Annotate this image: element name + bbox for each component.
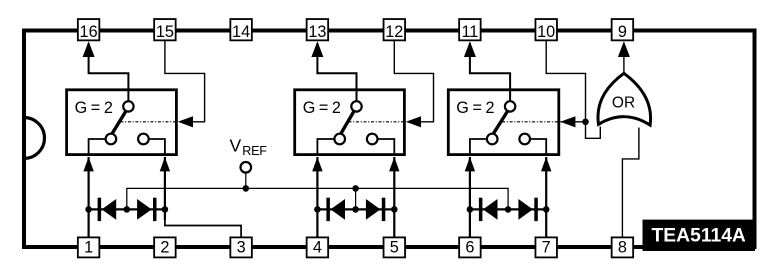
svg-text:G = 2: G = 2 [75, 99, 113, 117]
clamp diode D4 (cathode right) [356, 198, 395, 221]
wire: right contact stub [149, 139, 165, 155]
switch S2 common terminal circle [351, 101, 361, 111]
svg-text:15: 15 [156, 23, 174, 41]
svg-text:3: 3 [237, 239, 246, 257]
junction node left [85, 206, 92, 213]
pin 7 [535, 237, 557, 257]
switch block S2 box (G = 2) [295, 90, 405, 155]
wire: common output to pin 10 [464, 41, 510, 101]
wire: left input from pin 4 [312, 157, 322, 237]
switch S1 dash-dot control line [120, 121, 176, 123]
junction node right [162, 206, 169, 213]
wire: control pin 12 jog into block [394, 41, 433, 128]
switch S3 left contact circle [487, 134, 498, 145]
svg-text:6: 6 [465, 239, 474, 257]
svg-text:13: 13 [308, 23, 326, 41]
OR gate U1 [598, 73, 651, 125]
svg-text:OR: OR [612, 94, 635, 111]
pin 4 [307, 237, 329, 257]
switch block S3 box (G = 2) [448, 90, 559, 155]
switch S2 dash-dot control line [349, 121, 405, 123]
svg-text:TEA5114A: TEA5114A [652, 226, 746, 247]
junction node left [314, 206, 321, 213]
switch S1 left contact circle [106, 134, 117, 145]
clamp diode D3 (cathode left) [317, 198, 355, 221]
svg-text:G = 2: G = 2 [303, 99, 341, 117]
pin 3 [230, 237, 252, 257]
pin 2 [154, 237, 176, 257]
switch S3 dash-dot control line [502, 121, 559, 123]
wire: common output to pin 13 [311, 41, 356, 101]
wire: right input from pin 7 [541, 157, 551, 237]
wire: control pin 15 jog into block [165, 41, 205, 128]
wire: right input from pin 5 [389, 157, 399, 237]
switch S2 left contact circle [334, 134, 345, 145]
svg-text:16: 16 [80, 23, 98, 41]
junction node diode midpoint [505, 206, 512, 213]
junction node left [467, 206, 474, 213]
junction node right [543, 206, 550, 213]
junction node diode midpoint [124, 206, 131, 213]
svg-text:11: 11 [461, 23, 478, 41]
wire: left contact stub [89, 139, 106, 155]
pin 15 [154, 19, 176, 41]
pin 8 [612, 237, 634, 257]
junction node diode midpoint [352, 206, 359, 213]
pin 16 [78, 19, 100, 41]
part number label TEA5114A [643, 220, 756, 251]
VREF rail wire [127, 188, 508, 209]
wire: right contact stub [378, 139, 395, 155]
junction node right [391, 206, 398, 213]
pin 14 [230, 19, 252, 41]
pin 9 [612, 19, 634, 41]
wire: block S2 midpoint to rail [352, 185, 359, 209]
pin 12 [384, 19, 406, 41]
svg-text:REF: REF [242, 144, 267, 158]
wire: left input from pin 1 [83, 157, 93, 237]
switch S3 right contact circle [519, 134, 530, 145]
svg-text:10: 10 [537, 23, 555, 41]
wire: pin 10 control line with junction to OR input [546, 41, 600, 139]
clamp diode D5 (cathode left) [470, 198, 508, 221]
wire: pin 8 to OR right input [622, 128, 639, 238]
pin 10 [535, 19, 557, 41]
svg-text:9: 9 [618, 23, 627, 41]
switch S3 wiper arm [493, 111, 508, 135]
wire: pin 3 jog to right input [160, 157, 241, 237]
switch S1 right contact circle [138, 134, 149, 145]
switch S2 right contact circle [367, 134, 378, 145]
switch S1 wiper arm [112, 111, 127, 135]
svg-text:G = 2: G = 2 [456, 99, 494, 117]
clamp diode D6 (cathode right) [508, 198, 546, 221]
svg-text:V: V [230, 136, 242, 156]
svg-text:1: 1 [84, 239, 93, 257]
wire: right contact stub [530, 139, 546, 155]
clamp diode D1 (cathode left) [89, 198, 127, 221]
switch S3 common terminal circle [505, 101, 515, 111]
svg-text:14: 14 [232, 23, 250, 41]
package pin-1 notch [24, 118, 44, 159]
svg-text:8: 8 [618, 239, 627, 257]
svg-text:7: 7 [542, 239, 551, 257]
wire: left contact stub [470, 139, 487, 155]
svg-text:12: 12 [385, 23, 403, 41]
switch S2 wiper arm [341, 111, 355, 135]
IC package outline [24, 31, 755, 248]
pin 13 [307, 19, 329, 41]
pin 6 [459, 237, 481, 257]
label VREF [230, 136, 268, 158]
switch S1 common terminal circle [123, 101, 133, 111]
wire: common output to pin 16 [83, 41, 129, 101]
wire: left input from pin 6 [465, 157, 475, 237]
pin 5 [384, 237, 406, 257]
switch block S1 box (G = 2) [67, 90, 177, 155]
svg-text:4: 4 [313, 239, 322, 257]
node VREF terminal [241, 162, 252, 192]
wire: OR output to pin 9 [618, 41, 630, 74]
wire: left contact stub [317, 139, 334, 155]
svg-text:2: 2 [160, 239, 169, 257]
svg-text:5: 5 [390, 239, 399, 257]
pin 1 [78, 237, 100, 257]
clamp diode D2 (cathode right) [127, 198, 165, 221]
pin 11 [459, 19, 481, 41]
